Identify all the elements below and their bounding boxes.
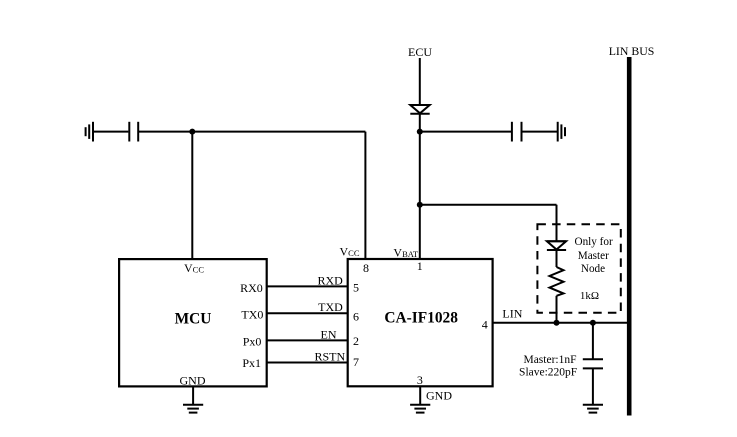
svg-text:1: 1	[417, 259, 423, 273]
wire RSTN	[267, 362, 348, 364]
svg-text:Px0: Px0	[243, 334, 262, 348]
wire ECU down to diode	[419, 58, 421, 105]
node dot Vcc junction	[189, 129, 195, 135]
svg-text:CA-IF1028: CA-IF1028	[384, 309, 458, 326]
wire C2 to ground	[522, 131, 558, 133]
ground at MCU GND	[183, 386, 203, 412]
node dot master branch junction	[417, 202, 423, 208]
wire resistor to LIN line	[556, 296, 558, 323]
wire diode to pin 1	[419, 114, 421, 259]
svg-text:MCU: MCU	[175, 311, 212, 328]
svg-text:GND: GND	[426, 389, 452, 403]
svg-text:RXD: RXD	[317, 273, 343, 287]
svg-text:TX0: TX0	[241, 308, 263, 322]
wire down to MCU Vcc	[191, 132, 193, 259]
svg-text:TXD: TXD	[318, 300, 343, 314]
wire EN	[267, 339, 348, 341]
wire VBAT node to master branch	[420, 204, 557, 206]
wire down to CA-IF1028 pin 8	[364, 132, 366, 259]
diode D2 (master node)	[547, 241, 566, 250]
svg-text:2: 2	[353, 334, 359, 348]
svg-text:GND: GND	[180, 374, 206, 388]
svg-text:RSTN: RSTN	[315, 350, 346, 364]
wire VBAT node to C2	[420, 131, 512, 133]
svg-text:LIN BUS: LIN BUS	[609, 44, 655, 58]
node dot VBAT top junction	[417, 129, 423, 135]
dashed box Only for Master Node	[537, 224, 620, 313]
wire RXD	[267, 285, 348, 287]
wire down into dashed box	[556, 205, 558, 241]
svg-text:1kΩ: 1kΩ	[580, 290, 599, 302]
wire C3 to ground	[592, 368, 594, 404]
node dot LIN / resistor	[554, 320, 560, 326]
svg-text:7: 7	[353, 355, 359, 369]
svg-text:Slave:220pF: Slave:220pF	[519, 367, 577, 379]
svg-text:4: 4	[482, 318, 488, 332]
svg-text:5: 5	[353, 280, 359, 294]
wire ground to C1	[93, 131, 128, 133]
ground at C3	[583, 405, 603, 413]
MCU box	[119, 259, 267, 386]
svg-text:Only for: Only for	[574, 236, 612, 248]
resistor R 1k	[550, 267, 564, 296]
svg-text:ECU: ECU	[408, 45, 432, 59]
wire diode to resistor	[556, 250, 558, 267]
wire LIN node down to C3	[592, 323, 594, 359]
svg-text:8: 8	[363, 261, 369, 275]
svg-text:Px1: Px1	[242, 356, 261, 370]
capacitor C1	[129, 122, 138, 142]
capacitor C2	[512, 122, 522, 142]
label Only for Master Node	[574, 236, 612, 275]
wire LIN pin4 to LIN BUS	[493, 322, 630, 324]
svg-text:3: 3	[417, 373, 423, 387]
svg-text:EN: EN	[321, 328, 337, 342]
svg-text:6: 6	[353, 310, 359, 324]
node dot LIN / C3	[590, 320, 596, 326]
svg-text:Master: Master	[578, 250, 609, 262]
svg-text:Node: Node	[581, 263, 605, 275]
ground (left sideways, top-left)	[86, 122, 93, 142]
ground (right sideways)	[558, 122, 565, 142]
LIN BUS thick line	[627, 57, 632, 416]
svg-text:LIN: LIN	[502, 307, 522, 321]
wire Vcc node to pin8 corner	[192, 131, 365, 133]
svg-text:RX0: RX0	[240, 281, 263, 295]
CA-IF1028 box	[348, 259, 493, 386]
ground at CA-IF1028 pin 3	[410, 386, 430, 412]
diode D1 (ECU reverse-protection)	[410, 105, 429, 114]
wire C1 to Vcc node	[138, 131, 192, 133]
wire TXD	[267, 312, 348, 314]
capacitor C3 (Master/Slave)	[583, 359, 603, 368]
svg-text:Master:1nF: Master:1nF	[523, 354, 576, 366]
